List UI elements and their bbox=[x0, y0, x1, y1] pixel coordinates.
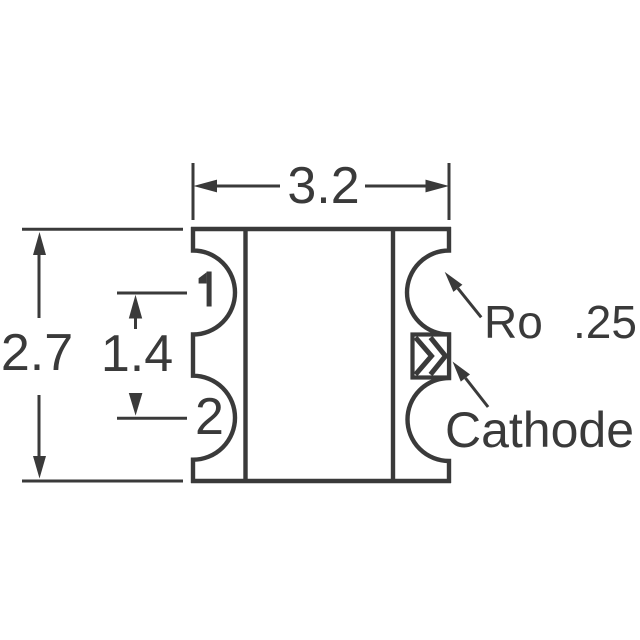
svg-text:2: 2 bbox=[195, 388, 224, 446]
svg-text:3.2: 3.2 bbox=[287, 157, 359, 215]
svg-text:Cathode: Cathode bbox=[445, 402, 634, 458]
svg-text:1.4: 1.4 bbox=[101, 325, 173, 383]
svg-text:.25: .25 bbox=[573, 296, 637, 348]
svg-text:Ro: Ro bbox=[484, 296, 543, 348]
svg-text:2.7: 2.7 bbox=[1, 324, 73, 382]
